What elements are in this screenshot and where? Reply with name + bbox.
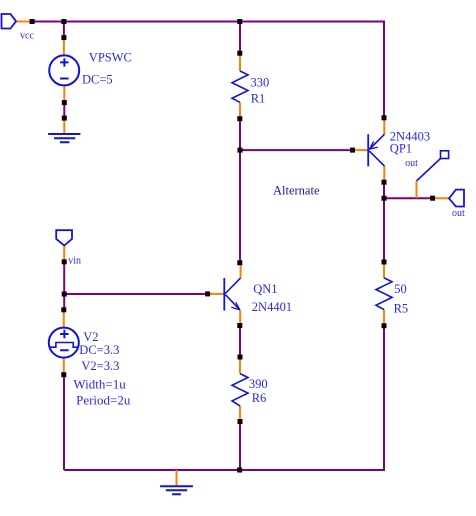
- svg-text:QP1: QP1: [390, 142, 412, 156]
- svg-text:DC=3.3: DC=3.3: [79, 343, 119, 357]
- svg-text:V2=3.3: V2=3.3: [81, 359, 119, 373]
- svg-text:vin: vin: [68, 256, 81, 267]
- svg-text:2N4401: 2N4401: [252, 300, 292, 314]
- svg-text:VPSWC: VPSWC: [89, 50, 132, 64]
- svg-text:Width=1u: Width=1u: [73, 377, 126, 392]
- svg-text:330: 330: [251, 75, 270, 89]
- svg-text:R6: R6: [252, 391, 267, 405]
- svg-text:DC=5: DC=5: [82, 73, 113, 87]
- svg-text:R5: R5: [394, 302, 409, 316]
- svg-text:QN1: QN1: [253, 282, 277, 296]
- svg-text:R1: R1: [251, 91, 266, 105]
- svg-text:Alternate: Alternate: [273, 183, 320, 197]
- svg-text:out: out: [452, 208, 465, 219]
- svg-text:out: out: [405, 158, 418, 169]
- svg-text:390: 390: [249, 377, 268, 391]
- svg-text:Period=2u: Period=2u: [76, 393, 131, 408]
- svg-text:V2: V2: [83, 330, 98, 344]
- svg-text:50: 50: [394, 282, 407, 296]
- svg-text:vcc: vcc: [20, 31, 34, 42]
